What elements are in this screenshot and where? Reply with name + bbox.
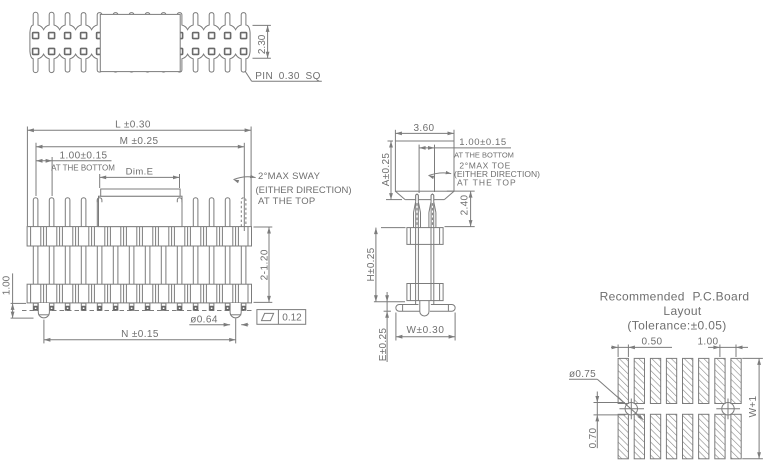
- front view: edge pin tips at cap sides: [97, 198, 102, 203]
- dimension 2-1.20 (strip heights): [254, 227, 273, 302]
- dimension M +/-0.25: [36, 136, 244, 231]
- svg-text:PIN 0.30 SQ: PIN 0.30 SQ: [255, 71, 321, 82]
- svg-text:2-1.20: 2-1.20: [259, 249, 270, 280]
- sway indicator 2 deg at top of last pin: [234, 171, 352, 207]
- side view: pick-up cap cross-section: [395, 141, 454, 200]
- svg-text:3.60: 3.60: [413, 123, 434, 134]
- top view: pin cross-section squares (two rows): [33, 33, 247, 55]
- side view: SMT feet (gull-wing): [396, 301, 455, 312]
- svg-text:0.12: 0.12: [282, 313, 302, 324]
- svg-text:E±0.25: E±0.25: [378, 328, 389, 362]
- dimension W+1 (pad row span): [742, 358, 763, 458]
- side view: locating peg with domed tip: [420, 301, 429, 316]
- svg-text:ø0.64: ø0.64: [190, 315, 218, 326]
- svg-text:W+1: W+1: [748, 395, 759, 417]
- svg-text:W±0.30: W±0.30: [407, 325, 445, 336]
- dimension 2.40 (cap bottom to block): [445, 191, 475, 227]
- top view: connector body outline with pin stubs: [30, 12, 250, 72]
- svg-text:H±0.25: H±0.25: [366, 247, 377, 281]
- svg-text:Layout: Layout: [663, 304, 701, 318]
- front view: lower insulator strip: [27, 284, 251, 303]
- dimension diameter 0.64 (peg width): [189, 315, 248, 327]
- svg-text:(Tolerance:±0.05): (Tolerance:±0.05): [627, 319, 726, 333]
- front view: upper insulator strip: [27, 227, 251, 246]
- front view: locating peg (left, between pins 1-2): [38, 303, 49, 318]
- svg-text:M ±0.25: M ±0.25: [120, 136, 159, 147]
- side view: pin tips inside cap skirt: [416, 194, 419, 201]
- svg-text:Dim.E: Dim.E: [126, 167, 154, 178]
- dimension Dim.E (cap width): [100, 167, 180, 188]
- dimension 0.70 (row gap): [588, 392, 626, 449]
- svg-text:ø0.75: ø0.75: [569, 369, 596, 380]
- svg-text:1.00±0.15: 1.00±0.15: [459, 137, 507, 148]
- dimension diameter 0.75 hole with leader: [569, 369, 643, 420]
- svg-text:N ±0.15: N ±0.15: [121, 329, 159, 340]
- dimension 2.30 (row spacing, top view): [253, 25, 271, 58]
- side view: lower insulator block: [407, 284, 443, 301]
- flatness feature control frame 0.12: [257, 310, 306, 325]
- PCB layout: left locating hole diameter 0.75 with centerlines: [619, 399, 644, 420]
- svg-text:1.00: 1.00: [2, 275, 13, 295]
- dimension H +/-0.25 (block stack height): [366, 228, 405, 302]
- front view: pins (14 columns) with domed tips: [33, 198, 246, 285]
- dimension 0.50 (pad width): [611, 337, 672, 357]
- dimension N +/-0.15 (peg spacing): [44, 318, 236, 343]
- svg-text:0.70: 0.70: [588, 428, 599, 449]
- side view: upper insulator block: [407, 228, 443, 245]
- svg-text:2°MAX SWAY: 2°MAX SWAY: [258, 171, 321, 182]
- side view: pins (two rows seen edge-on): [414, 194, 436, 301]
- svg-text:2.40: 2.40: [459, 195, 470, 216]
- svg-text:0.50: 0.50: [641, 337, 662, 348]
- front view: PCB seating dashed line: [22, 310, 254, 312]
- svg-text:(EITHER DIRECTION): (EITHER DIRECTION): [256, 185, 352, 196]
- svg-text:AT THE BOTTOM: AT THE BOTTOM: [51, 164, 115, 173]
- svg-text:1.00±0.15: 1.00±0.15: [59, 150, 107, 161]
- PCB layout: right locating hole with centerlines: [716, 399, 740, 420]
- svg-text:AT THE BOTTOM: AT THE BOTTOM: [454, 151, 514, 160]
- dimension 1.00 (tail height, left): [2, 273, 34, 318]
- dimension A +/-0.25 (cap height): [381, 141, 402, 200]
- top view: pick-up cap (white cover rectangle): [100, 14, 180, 71]
- dimension L +/-0.30: [27, 120, 251, 226]
- label PIN 0.30 SQ with leader: [245, 71, 322, 82]
- dimension 1.00 +/-0.15 at the bottom (pitch): [36, 150, 115, 196]
- toe indicator 2 deg at top (side): [429, 161, 541, 188]
- dimension 3.60 (cap width): [395, 123, 454, 141]
- svg-text:L ±0.30: L ±0.30: [115, 120, 151, 131]
- dimension 1.00 +/-0.15 at the bottom (side): [419, 137, 514, 193]
- PCB layout: hatched solder pads, 8 columns x 2 rows: [618, 358, 741, 458]
- dimension 1.00 (pad pitch): [697, 337, 748, 357]
- svg-text:A±0.25: A±0.25: [381, 153, 392, 187]
- svg-text:Recommended P.C.Board: Recommended P.C.Board: [600, 290, 750, 304]
- svg-text:2.30: 2.30: [257, 34, 268, 54]
- PCB layout title: [600, 290, 750, 333]
- svg-text:AT THE TOP: AT THE TOP: [457, 178, 517, 188]
- dimension E +/-0.25 (standoff height): [378, 292, 391, 362]
- svg-text:AT THE TOP: AT THE TOP: [258, 196, 316, 207]
- front view: pick-up cap on middle pins: [99, 189, 183, 227]
- svg-text:1.00: 1.00: [697, 337, 718, 348]
- front view: solder tails (one per pin): [33, 303, 246, 310]
- dimension W +/-0.30 (feet span): [396, 313, 455, 341]
